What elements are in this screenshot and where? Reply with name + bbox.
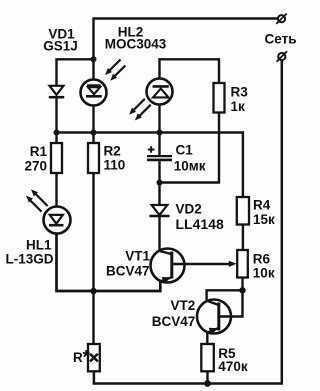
svg-text:1к: 1к (231, 99, 246, 114)
svg-text:R2: R2 (104, 143, 121, 158)
svg-text:Сеть: Сеть (265, 31, 297, 46)
svg-text:R6: R6 (253, 252, 271, 267)
svg-text:270: 270 (24, 158, 47, 173)
svg-text:HL1: HL1 (26, 238, 52, 253)
svg-text:BCV47: BCV47 (152, 314, 196, 329)
svg-text:10к: 10к (253, 266, 275, 281)
svg-text:R1: R1 (30, 144, 48, 159)
svg-text:L-13GD: L-13GD (5, 251, 53, 266)
svg-text:10мк: 10мк (174, 158, 206, 173)
svg-text:R4: R4 (253, 198, 271, 213)
svg-text:15к: 15к (253, 212, 275, 227)
svg-text:R: R (73, 350, 83, 365)
svg-text:GS1J: GS1J (43, 39, 78, 54)
svg-text:C1: C1 (176, 143, 194, 158)
svg-text:VD2: VD2 (176, 201, 202, 216)
svg-text:BCV47: BCV47 (106, 263, 150, 278)
svg-text:LL4148: LL4148 (176, 216, 224, 232)
svg-text:VT1: VT1 (125, 248, 150, 263)
svg-text:MOC3043: MOC3043 (105, 36, 167, 51)
svg-text:470к: 470к (218, 359, 248, 374)
svg-text:*: * (83, 348, 91, 369)
svg-text:VT2: VT2 (171, 298, 196, 313)
svg-text:R3: R3 (231, 85, 249, 100)
svg-text:110: 110 (104, 158, 126, 173)
